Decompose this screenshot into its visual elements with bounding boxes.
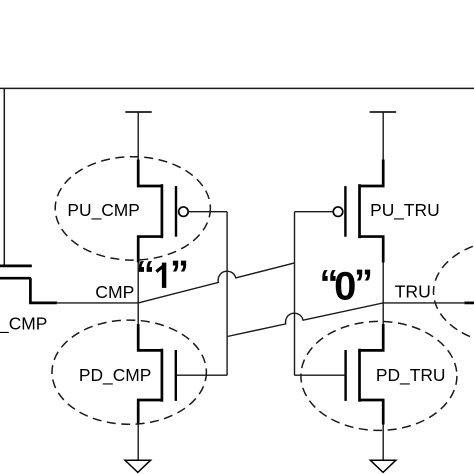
wire diag TRU node to CMP gates (hop over x=294.5) [227,303,383,337]
transistor PD_CMP drain arm [138,324,162,350]
transistor PD_TRU channel bar [358,349,361,402]
wire TRU column [382,263,384,325]
transistor PU_TRU gate bar [344,186,346,237]
wire PD_TRU to ground [382,425,384,461]
transistor PU_CMP source arm [138,160,162,187]
transistor PD_CMP channel bar [161,349,164,402]
ellipse around PD_CMP [52,320,206,424]
svg-text:0: 0 [334,264,356,308]
wire PG_CMP to node CMP [56,302,138,304]
transistor PD_TRU source arm [360,400,384,425]
transistor PU_TRU drain arm [360,237,384,263]
label "1" [136,254,189,296]
wire PD_CMP gate to CMP gate line [177,374,227,376]
svg-text:”: ” [170,254,189,296]
transistor PD_TRU drain arm [360,324,384,350]
wire VDD to PU_TRU [382,112,384,160]
ellipse around PG_TRU (clipped at right edge) [434,240,474,345]
wire PD_TRU gate to TRU gate line [294,374,344,376]
transistor PU_CMP channel bar [161,184,164,238]
transistor PU_TRU channel bar [358,184,361,238]
wire VDD to PU_CMP [137,112,139,160]
svg-text:TRU: TRU [395,281,431,301]
transistor PU_TRU source arm [360,160,384,187]
svg-text:CMP: CMP [95,282,134,302]
wire PD_CMP to ground [137,425,139,461]
wire TRU inverter gate line [294,212,296,376]
transistor PU_CMP bubble [179,207,189,217]
ground right [370,460,396,472]
svg-text:”: ” [354,263,373,305]
wire diag CMP node to TRU gates (hop over x=227) [138,263,294,303]
wire PU_TRU gate to TRU gate line [295,211,334,213]
transistor PG_TRU drain arm (clipped at right edge) [464,302,474,305]
transistor PU_CMP gate bar [175,186,177,237]
ellipse around PD_TRU [301,321,457,430]
transistor PG_CMP channel bar [0,277,31,280]
wire WL drop to PG_CMP gate [3,88,5,264]
power VDD bar left [125,111,151,113]
svg-text:PU_CMP: PU_CMP [67,200,139,220]
transistor PG_CMP drain arm [30,278,57,303]
label "0" [320,263,374,308]
ground left [125,460,151,472]
transistor PD_TRU gate bar [344,350,346,401]
wire CMP inverter gate line [226,212,228,376]
wire PU_CMP gate to CMP gate line [188,211,227,213]
transistor PD_CMP gate bar [175,350,177,401]
transistor PD_CMP source arm [138,400,162,425]
wire WL word line [0,87,474,89]
transistor PG_CMP gate bar [0,265,32,268]
transistor PU_TRU bubble [333,207,343,217]
svg-text:PG_CMP: PG_CMP [0,314,47,334]
wire CMP column [137,263,139,325]
power VDD bar right [370,111,396,113]
svg-text:PD_CMP: PD_CMP [79,365,151,385]
wire node TRU to PG_TRU [383,302,464,304]
svg-text:PU_TRU: PU_TRU [370,200,440,220]
ellipse around PU_CMP [55,157,210,260]
transistor PU_CMP drain arm [138,237,162,263]
svg-text:PD_TRU: PD_TRU [376,365,446,385]
